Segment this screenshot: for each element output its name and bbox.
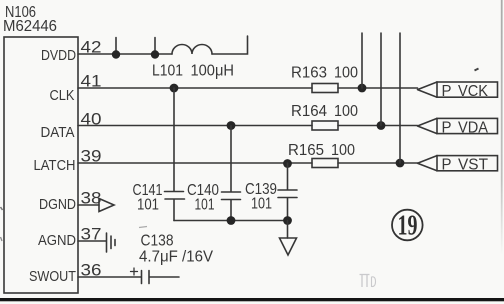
svg-text:VDA: VDA bbox=[458, 119, 488, 136]
svg-text:L101: L101 bbox=[152, 63, 183, 80]
wire pin40 DATA line bbox=[78, 125, 312, 127]
node J2 bbox=[151, 50, 159, 58]
svg-text:VCK: VCK bbox=[458, 83, 488, 100]
svg-text:41: 41 bbox=[81, 72, 102, 91]
wire rail to ground bbox=[287, 221, 289, 239]
svg-text:M62446: M62446 bbox=[3, 18, 57, 35]
node J5 bbox=[227, 121, 236, 130]
resistor R164 bbox=[312, 121, 338, 130]
svg-text:P: P bbox=[442, 157, 452, 174]
svg-text:LATCH: LATCH bbox=[34, 157, 76, 174]
bottom scan bar bbox=[0, 298, 504, 301]
svg-text:101: 101 bbox=[251, 196, 272, 213]
node J3 bbox=[170, 84, 179, 93]
svg-text:42: 42 bbox=[81, 38, 102, 57]
sheet number circle 19 bbox=[392, 210, 423, 241]
connector P_VDA bbox=[437, 118, 498, 133]
node J10 bbox=[283, 216, 292, 225]
wire pin36 SWOUT bbox=[78, 276, 141, 278]
resistor R165 bbox=[312, 159, 338, 168]
wire vertical net1 bbox=[361, 33, 363, 88]
scan speck left edge a bbox=[1, 207, 3, 210]
svg-text:P: P bbox=[442, 119, 452, 136]
faint watermark mark bbox=[360, 275, 376, 288]
node J6 bbox=[377, 121, 386, 130]
scan speck left edge b bbox=[1, 237, 3, 241]
speck bbox=[475, 69, 479, 71]
wire R165 to arrow bbox=[338, 162, 418, 164]
connector P_VCK bbox=[437, 82, 498, 97]
svg-text:100μH: 100μH bbox=[191, 63, 235, 80]
svg-text:36: 36 bbox=[81, 261, 102, 280]
scan speck near C141 bbox=[139, 227, 147, 228]
node J9 bbox=[227, 216, 236, 225]
inductor L101 bbox=[172, 45, 212, 54]
connector P_VST bbox=[437, 156, 498, 171]
wire pin38 DGND bbox=[78, 204, 99, 206]
svg-text:P: P bbox=[442, 83, 452, 100]
node J8 bbox=[396, 159, 405, 168]
wire R163 to arrow bbox=[338, 87, 418, 89]
svg-text:39: 39 bbox=[81, 147, 102, 166]
svg-text:37: 37 bbox=[81, 225, 102, 244]
svg-text:VST: VST bbox=[458, 157, 488, 174]
svg-text:C138: C138 bbox=[141, 233, 174, 250]
wire pin42 DVDD line bbox=[78, 53, 172, 55]
svg-text:19: 19 bbox=[398, 210, 418, 242]
wire after L101 bbox=[212, 36, 248, 54]
svg-text:R163: R163 bbox=[291, 65, 327, 82]
wire pin41 CLK line bbox=[78, 87, 312, 89]
wire vertical net3 bbox=[399, 33, 401, 163]
wire pin37 AGND bbox=[78, 240, 106, 242]
svg-text:101: 101 bbox=[195, 197, 215, 214]
svg-text:40: 40 bbox=[81, 110, 102, 129]
svg-text:CLK: CLK bbox=[50, 87, 75, 104]
capacitor C141 bbox=[165, 88, 185, 221]
capacitor C140 bbox=[222, 126, 241, 221]
svg-text:100: 100 bbox=[331, 142, 355, 159]
ground G2 triangle DGND bbox=[99, 199, 114, 212]
svg-text:38: 38 bbox=[81, 189, 102, 208]
node J1 bbox=[112, 50, 120, 58]
capacitor C139 bbox=[278, 163, 297, 221]
ground G1 triangle bbox=[280, 238, 297, 255]
svg-text:DVDD: DVDD bbox=[41, 47, 76, 64]
node J7 bbox=[283, 159, 292, 168]
wire vertical net2 bbox=[380, 33, 382, 126]
wire ground rail bbox=[174, 220, 288, 222]
svg-text:SWOUT: SWOUT bbox=[29, 268, 76, 285]
svg-text:R164: R164 bbox=[291, 103, 327, 120]
node J4 bbox=[358, 84, 367, 93]
svg-text:DATA: DATA bbox=[41, 124, 75, 141]
resistor R163 bbox=[312, 84, 338, 93]
wire pin39 LATCH line bbox=[78, 162, 312, 164]
wire stub A bbox=[115, 38, 117, 55]
wire R164 to arrow bbox=[338, 125, 418, 127]
IC U-N106 box bbox=[4, 37, 78, 293]
ground G3 bars AGND bbox=[107, 233, 116, 252]
svg-text:100: 100 bbox=[334, 65, 358, 82]
svg-text:AGND: AGND bbox=[38, 232, 76, 249]
svg-text:R165: R165 bbox=[288, 142, 324, 159]
svg-text:101: 101 bbox=[137, 197, 159, 214]
wire stub B bbox=[154, 38, 156, 55]
svg-text:100: 100 bbox=[334, 103, 358, 120]
svg-text:DGND: DGND bbox=[39, 196, 76, 213]
capacitor C138 plus sign bbox=[131, 268, 138, 275]
capacitor C138 plates bbox=[142, 271, 180, 284]
svg-text:4.7μF /16V: 4.7μF /16V bbox=[139, 249, 213, 266]
